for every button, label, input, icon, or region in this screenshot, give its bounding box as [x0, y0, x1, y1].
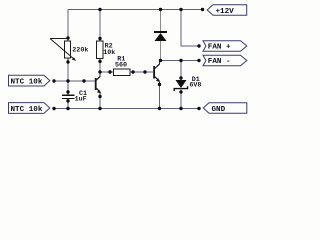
wire collector node to R1 — [100, 71, 114, 73]
potentiometer 220k body — [65, 41, 71, 58]
svg-text:6V8: 6V8 — [189, 81, 201, 89]
node pot bottom — [66, 60, 69, 63]
wire R2 bottom to collector node — [99, 61, 101, 72]
node rail / C1 — [66, 107, 69, 110]
node R1 right — [131, 70, 134, 73]
node NTC1 pin — [52, 79, 55, 82]
svg-text:NTC 10k: NTC 10k — [11, 79, 43, 87]
wire NTC1 to Q1 base — [54, 80, 95, 82]
transistor Q2 — [153, 61, 160, 85]
wire FAN+ branch vertical — [180, 10, 182, 47]
node Q2 base wire — [143, 70, 146, 73]
wire pot branch top vertical — [67, 10, 69, 39]
node pot top — [66, 36, 69, 39]
node FAN- / D1 — [179, 59, 182, 62]
wire pot bottom to node — [67, 62, 69, 81]
connector tag NTC 10k (lower) — [9, 103, 50, 114]
transistor Q1 — [95, 72, 101, 97]
diode D2 anode pin — [160, 41, 162, 61]
capacitor C1 top wire — [67, 81, 69, 93]
node R2 top — [98, 37, 101, 40]
diode D2 triangle — [155, 33, 167, 41]
wire R1 to Q2 base — [130, 71, 153, 73]
node FAN+ pin — [197, 44, 200, 47]
zener diode D1 top wire — [180, 61, 182, 79]
connector tag GND — [203, 103, 247, 113]
node D1 cathode — [179, 90, 182, 93]
node FAN- / D2 / Q2 collector — [159, 59, 162, 62]
connector tag NTC 10k (upper) — [9, 75, 50, 86]
resistor R2 top pin — [99, 39, 101, 42]
svg-text:220k: 220k — [72, 47, 88, 55]
node GND pin — [197, 107, 200, 110]
wire top rail +12V — [68, 9, 203, 11]
zener diode D1 anode pin — [180, 78, 182, 80]
svg-text:560: 560 — [115, 61, 127, 69]
node Q1 emitter — [98, 95, 101, 98]
resistor R2 bottom pin — [99, 59, 101, 62]
node base line / pot — [66, 79, 69, 82]
svg-text:+12V: +12V — [216, 8, 235, 16]
svg-text:10k: 10k — [103, 49, 115, 57]
svg-text:FAN +: FAN + — [208, 44, 231, 52]
wire Q1 emitter to ground rail — [99, 97, 101, 109]
wire FAN- line — [161, 60, 200, 62]
node R2 bottom — [98, 60, 101, 63]
potentiometer wiper arrow — [50, 39, 75, 60]
zener diode D1 bottom wire — [180, 89, 182, 109]
svg-text:NTC 10k: NTC 10k — [11, 106, 43, 114]
node rail / Q1 emitter — [98, 107, 101, 110]
node top rail / R2 — [98, 8, 101, 11]
svg-text:GND: GND — [212, 106, 226, 114]
capacitor C1 bottom wire — [67, 101, 69, 109]
node C1 top — [66, 90, 69, 93]
node rail / Q2 emitter — [158, 107, 161, 110]
resistor R1 body — [114, 69, 131, 75]
wire FAN+ horizontal — [181, 45, 199, 47]
connector tag +12V — [207, 5, 247, 16]
node Q2 emitter — [158, 83, 161, 86]
node D1 anode — [179, 76, 182, 79]
potentiometer top pin — [67, 38, 69, 41]
connector tag FAN - — [203, 55, 247, 66]
node C1 bottom — [66, 99, 69, 102]
node top rail / D2 — [159, 8, 162, 11]
node NTC2 pin — [52, 107, 55, 110]
diode D2 flyback cathode bar — [154, 31, 167, 33]
node R1 left — [108, 70, 111, 73]
node Q1 collector — [98, 70, 101, 73]
zener diode D1 cathode bar — [174, 86, 187, 91]
node +12V pin — [201, 8, 204, 11]
svg-text:FAN -: FAN - — [208, 58, 231, 66]
wire R2 branch top vertical — [99, 10, 101, 39]
potentiometer bottom pin — [67, 58, 69, 62]
potentiometer wiper wire — [50, 38, 68, 40]
junction dots — [52, 8, 204, 110]
wire Q2 emitter to ground rail — [159, 85, 161, 109]
zener diode D1 triangle — [176, 80, 187, 88]
node top rail / FAN+ — [179, 8, 182, 11]
resistor R2 body — [97, 41, 103, 58]
node rail / D1 — [179, 107, 182, 110]
capacitor C1 plates — [67, 93, 69, 95]
node FAN- pin — [197, 59, 200, 62]
wire D2 branch top vertical — [160, 10, 162, 32]
svg-text:1uF: 1uF — [75, 96, 87, 104]
connector tag FAN + — [203, 41, 247, 52]
node base line / Q1 — [82, 79, 85, 82]
wire ground rail — [54, 108, 199, 110]
